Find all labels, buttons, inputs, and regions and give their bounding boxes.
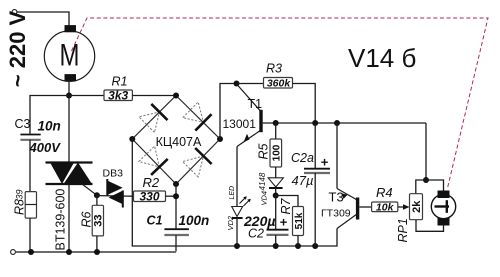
svg-text:R4: R4 [376,185,393,200]
svg-text:2k: 2k [411,200,423,213]
svg-text:R6: R6 [80,211,94,227]
node bridge right vertex [217,136,223,142]
wire C3 to R8 [29,140,31,192]
triac VS1 BT139-600 [46,163,93,251]
diode D3 bottom-left [139,146,160,167]
node R2 / bridge column [173,193,179,199]
resistor R8 [13,189,37,218]
diode D4 bottom-right [183,156,204,177]
svg-text:47µ: 47µ [292,173,314,188]
svg-text:V14 б: V14 б [348,43,416,73]
svg-text:LED: LED [229,186,236,200]
capacitor C1 [147,213,210,251]
svg-text:VD2: VD2 [226,215,235,230]
svg-text:ГТ309: ГТ309 [321,208,351,220]
diode D2 top-right [183,102,204,122]
bridge edges [132,96,220,185]
svg-text:100n: 100n [179,213,210,228]
svg-text:M: M [60,37,80,72]
wire R8 to bottom rail [29,218,31,252]
svg-text:R2: R2 [143,175,160,190]
svg-text:T1: T1 [248,97,263,111]
svg-text:R8: R8 [13,199,27,215]
node bridge bottom vertex [173,181,179,187]
svg-text:КЦ407А: КЦ407А [156,135,202,149]
svg-text:100: 100 [272,144,283,161]
svg-text:BT139-600: BT139-600 [54,189,68,251]
wire R1 to bridge top [132,95,176,97]
node base/T3 emitter [334,120,340,126]
svg-text:33: 33 [93,214,105,226]
svg-text:T3: T3 [329,190,344,205]
motor M1 [44,25,94,81]
terminal top-left [12,10,17,15]
node motor junction [66,93,72,99]
svg-text:360k: 360k [267,78,292,90]
capacitor C2a 47u [291,123,330,246]
transistor T1 13001 [223,85,263,147]
svg-text:R7: R7 [279,197,293,214]
node base/R5 [273,120,279,126]
svg-text:RP1: RP1 [396,218,410,242]
svg-text:R3: R3 [266,62,282,76]
potentiometer RP1 2k [396,180,444,243]
node base/C2a [312,120,318,126]
tachogenerator [426,180,456,226]
svg-text:4148: 4148 [258,172,267,190]
wire top terminal to motor [17,12,69,26]
svg-text:R5: R5 [257,143,271,159]
diode VD4 4148 [258,172,283,205]
resistor R3 [237,62,316,124]
resistor R5 [257,123,283,178]
node gate junction [94,192,100,198]
diac DB3 [97,168,134,208]
svg-text:3k3: 3k3 [108,88,128,102]
wire triac gate [82,184,97,195]
bridge rectifier KC407A [129,93,223,188]
node P collector/R3 [234,81,240,87]
svg-text:~ 220 V: ~ 220 V [5,10,30,87]
svg-text:330: 330 [139,189,159,203]
transistor T3 GT309 [321,123,359,229]
wire bridge right vertex to node P [220,84,237,140]
svg-text:39: 39 [15,189,25,199]
wire R1 left [69,95,104,97]
svg-text:C2a: C2a [291,151,314,165]
node VD4/C2/R7 [273,193,279,199]
svg-text:C2: C2 [248,227,264,241]
wire base line right corner down [425,123,427,180]
svg-text:+: + [321,155,329,170]
mechanical coupling dashed line [72,18,489,188]
capacitor C2 220u [243,196,289,247]
node bridge top vertex [173,93,179,99]
svg-text:+: + [280,215,288,230]
resistor R6 [80,195,105,252]
svg-text:C1: C1 [147,214,163,228]
svg-text:C3: C3 [15,117,31,131]
svg-text:DB3: DB3 [103,168,124,180]
svg-text:400V: 400V [29,140,62,155]
AC bottom rail [11,249,176,255]
svg-text:51k: 51k [294,212,305,229]
wire bridge bottom vertex down [175,184,177,229]
resistor R1 [104,75,132,103]
node bridge left vertex [129,136,135,142]
resistor R2 [134,175,177,203]
wire T1 base line [263,122,426,124]
resistor R7 51k [276,196,305,247]
wire motor bottom to junction [68,81,70,95]
svg-text:R1: R1 [112,75,128,89]
wire T1 emitter down [236,147,238,207]
svg-text:VD4: VD4 [259,191,268,206]
DC minus rail [132,139,337,249]
LED VD2 [226,186,251,246]
diode D1 top-left [139,112,160,132]
wire triac column [68,96,70,163]
svg-text:13001: 13001 [223,117,257,131]
svg-text:10k: 10k [376,201,395,213]
node RP1/tacho top [423,177,429,183]
capacitor C3 [15,117,62,155]
resistor R4 10k [359,185,409,213]
wire junction to C3 branch [30,96,69,135]
svg-text:10n: 10n [38,119,61,134]
